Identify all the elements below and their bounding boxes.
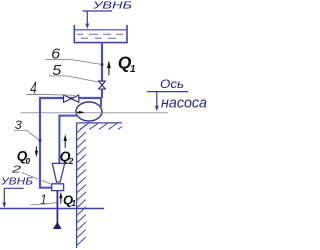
svg-text:5: 5	[52, 62, 62, 79]
tank (upper reservoir)	[74, 25, 127, 43]
svg-text:УВНБ: УВНБ	[92, 0, 133, 11]
ejector nozzle (funnel)	[52, 163, 64, 182]
pipe elbow into ejector	[39, 187, 52, 189]
lower water level line	[0, 208, 104, 210]
tank water dashes	[77, 34, 123, 38]
axis flow arrow at pump center	[79, 111, 85, 114]
ejector mixing box	[52, 184, 64, 191]
leader of label 3	[14, 130, 39, 140]
leader of label 4	[26, 94, 75, 97]
tank water level line	[75, 29, 127, 31]
pipe stub from junction down into pump	[100, 98, 102, 107]
svg-text:1: 1	[71, 198, 76, 208]
wall hatching	[77, 125, 86, 246]
leader of УВНБ (lower) with arrow to level line	[4, 188, 23, 203]
svg-text:2: 2	[10, 164, 21, 176]
svg-text:0: 0	[25, 156, 30, 166]
leader of label 5	[49, 76, 99, 82]
left working-water pipe (down)	[39, 97, 41, 189]
svg-text:насоса: насоса	[161, 94, 207, 111]
node (leader 3 endpoint dot on left pipe)	[38, 139, 41, 142]
flow arrow Q1 up (lower)	[59, 192, 62, 204]
svg-text:2: 2	[68, 156, 74, 166]
svg-text:УВНБ: УВНБ	[0, 175, 33, 187]
leader of label 2	[22, 173, 52, 185]
suction pipe from pump	[59, 116, 77, 164]
node (leader 6 endpoint dot on pipe)	[101, 63, 104, 66]
horizontal vacuum pipe	[40, 97, 102, 99]
arrowhead of УВНБ (lower) leader	[2, 203, 6, 209]
axis line (pump axis)	[21, 112, 169, 114]
flow arrow Q1 up (upper)	[107, 60, 111, 75]
arrowhead of УВНБ (upper) leader	[85, 24, 89, 30]
floor line (pump foundation)	[77, 122, 122, 124]
leader of Ось насоса with arrow to axis	[147, 92, 188, 106]
floor hatching	[80, 123, 122, 129]
flow arrow Q0 down	[35, 146, 38, 157]
discharge pipe from tank down	[101, 43, 103, 81]
svg-text:Ось: Ось	[160, 77, 184, 91]
valve 5 (hourglass on vertical pipe)	[99, 81, 106, 89]
valve 4 (bowtie on horizontal pipe)	[64, 95, 79, 102]
arrowhead of Ось насоса leader	[155, 106, 159, 112]
svg-text:1: 1	[130, 64, 136, 75]
leader of label 6	[45, 59, 100, 64]
wall line	[76, 123, 78, 248]
flow arrow Q2 up	[64, 134, 67, 148]
pump U (ellipse)	[76, 102, 102, 121]
leader of УВНБ (upper) with arrow into tank	[83, 11, 113, 25]
suction tail pipe below ejector	[56, 191, 58, 228]
axis line across pump interior	[77, 112, 102, 114]
intake arrowhead (foot)	[53, 222, 62, 229]
leader of label 1	[31, 202, 57, 204]
